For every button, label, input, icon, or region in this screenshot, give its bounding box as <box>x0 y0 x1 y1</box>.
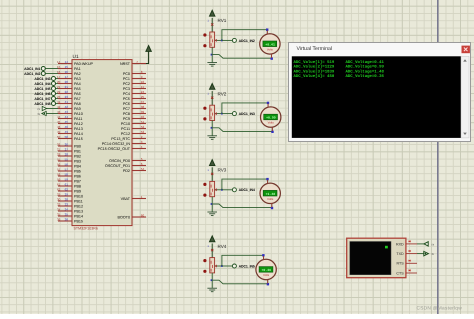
pin PB0 <box>58 145 72 147</box>
wiper RV3 <box>215 189 222 191</box>
svg-text:PB7: PB7 <box>74 179 81 183</box>
power arrow RV1 <box>211 18 213 32</box>
junction wiper RV1 <box>221 40 223 42</box>
svg-text:PC10: PC10 <box>121 122 130 126</box>
svg-text:34: 34 <box>65 208 69 212</box>
wire bottom to meter- RV4 <box>212 280 268 284</box>
pin PC10 <box>132 123 146 125</box>
svg-text:29: 29 <box>57 193 61 197</box>
svg-text:ADC1_IN7: ADC1_IN7 <box>34 97 50 101</box>
pin PA7 <box>58 98 72 100</box>
svg-text:ADC1_IN5: ADC1_IN5 <box>34 87 50 91</box>
svg-text:Volts: Volts <box>267 197 274 201</box>
svg-text:54: 54 <box>141 167 145 171</box>
svg-text:20: 20 <box>65 80 69 84</box>
svg-text:CTS: CTS <box>396 271 404 275</box>
pin PB6 <box>58 175 72 177</box>
pin PC7 <box>132 108 146 110</box>
mcu U1 body <box>72 60 132 226</box>
red pin marker top RV4 <box>211 249 213 251</box>
svg-text:52: 52 <box>141 125 145 129</box>
corner mark top RV4 <box>262 254 264 256</box>
svg-text:27: 27 <box>57 148 61 152</box>
svg-text:28: 28 <box>57 153 61 157</box>
voltmeter lcd RV1 <box>263 41 277 47</box>
svg-text:23: 23 <box>65 95 69 99</box>
pin PA10 <box>58 113 72 115</box>
wire pot bottom to ground RV2 <box>211 121 213 136</box>
svg-text:10: 10 <box>141 80 145 84</box>
svg-text:59: 59 <box>65 178 69 182</box>
red dot lower RV3 <box>203 194 206 197</box>
svg-text:PA1: PA1 <box>74 67 81 71</box>
svg-text:33: 33 <box>65 203 69 207</box>
red dot upper RV1 <box>203 33 206 36</box>
pin PA11 <box>58 118 72 120</box>
ground RV3 <box>207 211 217 213</box>
svg-text:36: 36 <box>65 218 69 222</box>
corner mark top RV3 <box>266 178 268 180</box>
pin PA15 <box>58 138 72 140</box>
svg-text:+1.48: +1.48 <box>266 192 276 196</box>
pin PC9 <box>132 118 146 120</box>
svg-text:Virtual Terminal: Virtual Terminal <box>297 46 333 52</box>
svg-text:STM32F103R6: STM32F103R6 <box>74 227 98 231</box>
svg-text:40: 40 <box>141 115 145 119</box>
svg-text:PC0: PC0 <box>123 72 130 76</box>
junction pot bottom RV2 <box>211 127 213 129</box>
voltmeter RV3 <box>260 183 280 203</box>
pin PA3 <box>58 78 72 80</box>
potentiometer RV1 body <box>210 32 215 47</box>
red dot lower RV4 <box>203 270 206 273</box>
pin PC3 <box>132 88 146 90</box>
terminal ADC1_IN7 <box>56 98 59 100</box>
red dot lower RV1 <box>203 44 206 47</box>
svg-text:25: 25 <box>141 95 145 99</box>
voltmeter RV2 <box>261 107 281 127</box>
red pin marker top RV3 <box>211 173 213 175</box>
terminal ADC1_IN8 <box>56 103 59 105</box>
svg-text:27: 27 <box>65 148 69 152</box>
pin OSCIN_PD0 <box>132 160 146 162</box>
svg-text:PA13: PA13 <box>74 127 83 131</box>
junction wiper RV4 <box>221 265 223 267</box>
svg-text:PC3: PC3 <box>123 87 130 91</box>
corner mark bottom RV2 <box>271 131 273 133</box>
pin PB12 <box>58 205 72 207</box>
svg-text:PC14-OSC32_IN: PC14-OSC32_IN <box>102 142 131 146</box>
red pin marker top RV2 <box>211 97 213 99</box>
terminal ADC1_IN2 rv <box>232 112 236 116</box>
wire pot bottom to ground RV1 <box>211 47 213 62</box>
svg-text:PC8: PC8 <box>123 112 130 116</box>
svg-text:PB9: PB9 <box>74 189 81 193</box>
pin PA13 <box>58 128 72 130</box>
terminal ADC1_IN3 <box>56 78 59 80</box>
svg-text:45: 45 <box>57 120 61 124</box>
svg-text:49: 49 <box>65 130 69 134</box>
svg-text:RV1: RV1 <box>218 18 227 23</box>
svg-text:ADC1_IN1: ADC1_IN1 <box>24 67 40 71</box>
terminal ADC1_IN1 <box>45 68 58 70</box>
pin PC12 <box>132 133 146 135</box>
wiper RV2 <box>215 113 222 115</box>
svg-text:BOOT0: BOOT0 <box>118 215 131 219</box>
wiper RV4 <box>215 265 222 267</box>
wire wiper to adc terminal RV1 <box>222 39 233 41</box>
svg-text:ADC1_IN8: ADC1_IN8 <box>34 102 50 106</box>
svg-text:PB4: PB4 <box>74 164 81 168</box>
svg-text:PA11: PA11 <box>74 117 82 121</box>
svg-text:43: 43 <box>65 110 69 114</box>
potentiometer RV2 body <box>210 105 215 120</box>
svg-text:PC12: PC12 <box>121 132 130 136</box>
svg-text:50: 50 <box>65 135 69 139</box>
pin PB8 <box>58 185 72 187</box>
svg-text:OSCOUT_PD1: OSCOUT_PD1 <box>105 164 130 168</box>
red dot lower RV2 <box>203 117 206 120</box>
power arrow RV2 <box>211 91 213 105</box>
close button <box>462 46 470 54</box>
svg-text:ADC_Value[2]=1229: ADC_Value[2]=1229 <box>294 65 335 70</box>
vt instrument body <box>347 238 406 278</box>
wire wiper to adc terminal RV2 <box>222 113 233 115</box>
svg-text:PA5: PA5 <box>74 87 81 91</box>
svg-text:46: 46 <box>57 125 61 129</box>
pin PC6 <box>132 103 146 105</box>
svg-text:29: 29 <box>65 193 69 197</box>
svg-text:PC1: PC1 <box>123 77 130 81</box>
pin PC2 <box>132 83 146 85</box>
svg-text:PB14: PB14 <box>74 214 83 218</box>
svg-text:35: 35 <box>65 213 69 217</box>
terminal ADC1_IN6 <box>56 93 59 95</box>
terminal tx left <box>46 113 58 115</box>
corner mark top RV1 <box>266 29 268 31</box>
voltmeter lcd RV4 <box>259 267 273 273</box>
svg-text:OSCIN_PD0: OSCIN_PD0 <box>109 159 130 163</box>
svg-text:24: 24 <box>141 90 145 94</box>
svg-text:ADC1_IN3: ADC1_IN3 <box>34 77 50 81</box>
svg-text:PA7: PA7 <box>74 97 81 101</box>
svg-text:PA3: PA3 <box>74 77 81 81</box>
terminal screen <box>292 56 461 138</box>
pin PB15 <box>58 220 72 222</box>
svg-text:30: 30 <box>65 198 69 202</box>
red dot upper RV4 <box>203 259 206 262</box>
svg-text:ADC1_IN2: ADC1_IN2 <box>239 39 255 43</box>
svg-text:PB10: PB10 <box>74 194 83 198</box>
svg-text:Volts: Volts <box>267 47 274 51</box>
svg-text:U1: U1 <box>73 54 79 60</box>
pin PB10 <box>58 195 72 197</box>
wire wiper to meter+ RV3 <box>222 179 268 190</box>
terminal ADC1_IN4 <box>56 83 59 85</box>
svg-text:16: 16 <box>65 70 69 74</box>
svg-text:58: 58 <box>57 173 61 177</box>
svg-text:PB13: PB13 <box>74 209 83 213</box>
svg-text:56: 56 <box>57 163 61 167</box>
pin PA2 <box>58 73 72 75</box>
terminal rx right <box>424 242 428 246</box>
ground RV1 <box>207 62 217 64</box>
vt instrument screen <box>350 242 391 275</box>
svg-text:+0.36: +0.36 <box>262 268 272 272</box>
scrollbar <box>461 56 469 138</box>
svg-text:39: 39 <box>141 110 145 114</box>
svg-text:PB1: PB1 <box>74 149 81 153</box>
svg-text:RTS: RTS <box>396 262 404 266</box>
ground RV4 <box>207 287 217 289</box>
wire RXD to rx terminal <box>417 243 424 245</box>
svg-text:RV4: RV4 <box>218 244 227 249</box>
svg-text:PB15: PB15 <box>74 219 83 223</box>
svg-text:ADC_Voltage=1.48: ADC_Voltage=1.48 <box>346 69 385 74</box>
svg-text:41: 41 <box>65 100 69 104</box>
pin PB5 <box>58 170 72 172</box>
svg-text:28: 28 <box>65 153 69 157</box>
wiper RV1 <box>215 39 222 41</box>
pin PC13_RTC <box>132 138 146 140</box>
pin PC11 <box>132 128 146 130</box>
svg-text:61: 61 <box>57 183 61 187</box>
svg-text:ADC_Voltage=0.36: ADC_Voltage=0.36 <box>346 74 385 79</box>
svg-text:PB8: PB8 <box>74 184 81 188</box>
svg-text:PB12: PB12 <box>74 204 83 208</box>
pin PC5 <box>132 98 146 100</box>
svg-text:NRST: NRST <box>120 62 131 66</box>
svg-text:17: 17 <box>65 75 69 79</box>
svg-text:PA4: PA4 <box>74 82 81 86</box>
svg-text:ADC_Voltage=0.99: ADC_Voltage=0.99 <box>346 65 385 70</box>
svg-text:PD2: PD2 <box>123 169 130 173</box>
sheet border line <box>437 0 439 314</box>
svg-text:PA14: PA14 <box>74 132 83 136</box>
corner mark bottom RV1 <box>271 57 273 59</box>
svg-text:11: 11 <box>141 85 144 89</box>
svg-text:44: 44 <box>57 115 61 119</box>
svg-text:14: 14 <box>57 60 61 64</box>
pin PA12 <box>58 123 72 125</box>
voltmeter lcd RV3 <box>263 190 277 196</box>
svg-text:PB2: PB2 <box>74 154 81 158</box>
svg-text:38: 38 <box>141 105 145 109</box>
svg-text:51: 51 <box>141 120 145 124</box>
voltmeter RV4 <box>256 259 276 279</box>
terminal rx left <box>47 108 59 110</box>
pin PB13 <box>58 210 72 212</box>
ground RV2 <box>207 135 217 137</box>
svg-text:15: 15 <box>65 65 69 69</box>
junction pot bottom RV1 <box>211 54 213 56</box>
svg-text:56: 56 <box>65 163 69 167</box>
svg-text:PA12: PA12 <box>74 122 83 126</box>
pin PC14-OSC32_IN <box>132 143 146 145</box>
svg-text:PA2: PA2 <box>74 72 81 76</box>
pin BOOT0 <box>132 216 146 218</box>
svg-text:58: 58 <box>65 173 69 177</box>
pin PC15-OSC32_OUT <box>132 148 146 150</box>
svg-text:46: 46 <box>65 125 69 129</box>
pin PA4 <box>58 83 72 85</box>
terminal ADC1_IN5 <box>56 88 59 90</box>
pin PC0 <box>132 73 146 75</box>
power arrow RV3 <box>211 167 213 181</box>
svg-text:PC4: PC4 <box>123 92 130 96</box>
svg-text:PB11: PB11 <box>74 199 83 203</box>
svg-text:PA10: PA10 <box>74 112 83 116</box>
wire NRST to power <box>146 48 149 63</box>
corner mark bottom RV4 <box>267 283 269 285</box>
pin PB4 <box>58 165 72 167</box>
red pin marker top RV1 <box>211 23 213 25</box>
pin PA8 <box>58 103 72 105</box>
svg-text:59: 59 <box>57 178 61 182</box>
svg-text:44: 44 <box>65 115 69 119</box>
corner mark top RV2 <box>267 102 269 104</box>
potentiometer RV3 body <box>210 181 215 196</box>
svg-text:55: 55 <box>65 158 69 162</box>
svg-text:ADC_Voltage=0.41: ADC_Voltage=0.41 <box>346 60 385 65</box>
svg-text:PA9: PA9 <box>74 107 81 111</box>
svg-text:35: 35 <box>57 213 61 217</box>
wire wiper to meter+ RV4 <box>222 255 264 266</box>
svg-text:55: 55 <box>57 158 61 162</box>
svg-text:61: 61 <box>65 183 69 187</box>
power arrow RV4 <box>211 244 213 258</box>
pin PC4 <box>132 93 146 95</box>
voltmeter lcd RV2 <box>264 114 278 120</box>
svg-text:33: 33 <box>57 203 61 207</box>
svg-text:PC15-OSC32_OUT: PC15-OSC32_OUT <box>98 147 131 151</box>
pin PA9 <box>58 108 72 110</box>
corner mark bottom RV3 <box>271 207 273 209</box>
svg-text:PA6: PA6 <box>74 92 81 96</box>
svg-text:+0.99: +0.99 <box>266 116 276 120</box>
junction wiper RV3 <box>221 189 223 191</box>
svg-text:57: 57 <box>57 168 61 172</box>
terminal ADC1_IN3 rv <box>232 188 236 192</box>
pin PC8 <box>132 113 146 115</box>
voltmeter RV1 <box>260 34 280 54</box>
svg-text:62: 62 <box>65 188 69 192</box>
wire wiper to adc terminal RV4 <box>222 265 233 267</box>
svg-text:ADC_Value[4]= 450: ADC_Value[4]= 450 <box>294 74 335 79</box>
svg-text:RV2: RV2 <box>218 91 227 96</box>
svg-text:PB0: PB0 <box>74 144 81 148</box>
pin PB1 <box>58 150 72 152</box>
svg-text:PC11: PC11 <box>121 127 130 131</box>
svg-text:ADC1_IN2: ADC1_IN2 <box>24 72 40 76</box>
svg-text:36: 36 <box>57 218 61 222</box>
svg-text:37: 37 <box>141 100 145 104</box>
virtual terminal window frame <box>289 43 471 142</box>
terminal ADC1_IN1 rv <box>232 38 236 42</box>
svg-text:45: 45 <box>65 120 69 124</box>
wire wiper to meter+ RV2 <box>222 103 268 114</box>
pin PA6 <box>58 93 72 95</box>
pin PB11 <box>58 200 72 202</box>
wire bottom to meter- RV3 <box>212 203 272 207</box>
wire wiper to meter+ RV1 <box>222 30 267 41</box>
svg-text:PA8: PA8 <box>74 102 81 106</box>
svg-text:PB5: PB5 <box>74 169 81 173</box>
svg-text:49: 49 <box>57 130 61 134</box>
svg-text:PA0-WKUP: PA0-WKUP <box>74 62 94 66</box>
junction pot bottom RV4 <box>211 279 213 281</box>
svg-text:26: 26 <box>65 143 69 147</box>
junction pot bottom RV3 <box>211 203 213 205</box>
svg-text:ADC_Value[1]= 519: ADC_Value[1]= 519 <box>294 60 335 65</box>
vt cursor green <box>385 246 388 249</box>
svg-text:+0.41: +0.41 <box>265 42 275 46</box>
svg-text:RV3: RV3 <box>218 168 227 173</box>
wire pot bottom to ground RV4 <box>211 273 213 288</box>
svg-text:60: 60 <box>141 214 145 218</box>
svg-text:TXD: TXD <box>396 252 404 256</box>
junction wiper RV2 <box>221 113 223 115</box>
svg-text:Volts: Volts <box>263 273 270 277</box>
svg-text:ADC1_IN4: ADC1_IN4 <box>239 188 255 192</box>
svg-text:ADC_Value[3]=1839: ADC_Value[3]=1839 <box>294 69 335 74</box>
terminal ADC1_IN4 rv <box>232 264 236 268</box>
pin PA5 <box>58 88 72 90</box>
pin PB2 <box>58 155 72 157</box>
wire bottom to meter- RV2 <box>212 127 273 131</box>
svg-text:57: 57 <box>65 168 69 172</box>
svg-text:30: 30 <box>57 198 61 202</box>
svg-text:PA15: PA15 <box>74 137 83 141</box>
svg-text:PC7: PC7 <box>123 107 130 111</box>
svg-text:RXD: RXD <box>396 242 404 246</box>
pin NRST <box>132 63 146 65</box>
svg-text:ADC1_IN3: ADC1_IN3 <box>239 112 255 116</box>
wire pot bottom to ground RV3 <box>211 197 213 212</box>
svg-text:42: 42 <box>65 105 69 109</box>
pin PC1 <box>132 78 146 80</box>
svg-text:PB3: PB3 <box>74 159 81 163</box>
pin PA0-WKUP <box>58 63 72 65</box>
pin OSCOUT_PD1 <box>132 165 146 167</box>
svg-text:ADC1_IN6: ADC1_IN6 <box>34 92 50 96</box>
terminal ADC1_IN2 <box>45 73 58 75</box>
pin PA1 <box>58 68 72 70</box>
svg-text:Volts: Volts <box>268 121 275 125</box>
power arrow VCC nrst <box>146 46 151 52</box>
pin PB3 <box>58 160 72 162</box>
svg-text:VBAT: VBAT <box>121 197 131 201</box>
pin VBAT <box>132 198 146 200</box>
pin PD2 <box>132 170 146 172</box>
wire bottom to meter- RV1 <box>212 54 272 58</box>
svg-text:PC9: PC9 <box>123 117 130 121</box>
pin PB9 <box>58 190 72 192</box>
wire TXD to tx terminal <box>417 253 424 255</box>
wire wiper to adc terminal RV3 <box>222 189 233 191</box>
svg-text:PC2: PC2 <box>123 82 130 86</box>
svg-text:14: 14 <box>65 60 69 64</box>
svg-text:22: 22 <box>65 90 69 94</box>
svg-text:21: 21 <box>65 85 69 89</box>
svg-text:PC13_RTC: PC13_RTC <box>111 137 130 141</box>
svg-text:CSDN @Masterlqw: CSDN @Masterlqw <box>417 306 463 312</box>
pin PB7 <box>58 180 72 182</box>
potentiometer RV4 body <box>210 258 215 273</box>
svg-text:PC6: PC6 <box>123 102 130 106</box>
svg-text:ADC1_IN5: ADC1_IN5 <box>239 264 255 268</box>
red dot upper RV3 <box>203 183 206 186</box>
